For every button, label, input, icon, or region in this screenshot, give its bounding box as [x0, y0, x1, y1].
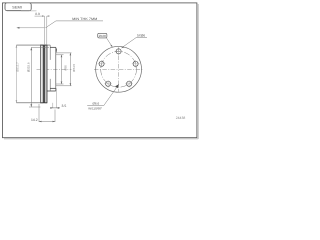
dimension A Ø212.7	[15, 45, 17, 103]
notch horizontal	[47, 90, 56, 92]
svg-text:Ø6.6: Ø6.6	[93, 102, 100, 106]
svg-text:Ø74.5: Ø74.5	[72, 63, 76, 71]
dimension line y27.8	[17, 27, 45, 29]
disc inboard plate outer face	[44, 45, 46, 103]
dimension B Ø232.6	[29, 47, 49, 107]
front view horizontal centerline	[94, 68, 144, 70]
dimension 14.2	[39, 104, 55, 122]
hat shoulder	[50, 46, 56, 48]
svg-text:5XØ6: 5XØ6	[137, 33, 145, 37]
border frame	[3, 3, 197, 138]
hat bottom wall	[50, 87, 56, 89]
MIN THK leader	[46, 21, 104, 28]
title box	[5, 3, 31, 11]
dimension 3.5	[51, 88, 61, 108]
svg-text:8.9: 8.9	[35, 12, 40, 16]
outer circle	[96, 46, 142, 92]
vertical centerline	[118, 47, 120, 92]
bolt hole upper-left	[98, 60, 106, 68]
section centerline	[37, 68, 72, 70]
disc outboard face	[40, 45, 42, 103]
svg-text:W/110/90°: W/110/90°	[88, 106, 103, 110]
dimension 8.9 thickness	[35, 16, 49, 45]
svg-text:24438: 24438	[176, 116, 186, 120]
step dim arrows at mounting face	[55, 48, 57, 53]
bolt circle	[101, 51, 137, 87]
border shadow	[4, 4, 198, 139]
5XØ6 label	[121, 33, 147, 48]
Ø6.6 label	[87, 84, 119, 110]
svg-text:SEMI: SEMI	[12, 6, 22, 10]
bolt hole lower-left	[104, 80, 112, 88]
PCD label box Ø100	[98, 33, 113, 47]
hat face lower	[49, 79, 51, 91]
bolt hole upper-right	[132, 60, 140, 68]
mounting face	[55, 47, 57, 91]
svg-text:Ø65: Ø65	[63, 65, 67, 71]
svg-text:Ø232.6: Ø232.6	[26, 62, 30, 72]
upper aux line y10.9	[21, 10, 37, 12]
hat face upper	[49, 45, 51, 60]
svg-text:3.5: 3.5	[62, 104, 67, 108]
svg-text:14.2: 14.2	[31, 118, 38, 122]
bolt hole top	[115, 48, 123, 56]
arrow at dim line A on y27.8	[17, 27, 20, 29]
disc top face	[16, 44, 50, 46]
disc outboard plate inner face	[42, 45, 44, 103]
disc band fill	[41, 45, 44, 103]
svg-text:Ø100: Ø100	[99, 34, 107, 38]
svg-text:Ø212.7: Ø212.7	[16, 62, 20, 72]
dimension Ø74.5	[56, 53, 72, 86]
bolt hole lower-right	[125, 80, 133, 88]
disc bottom face	[16, 102, 47, 104]
disc inboard face	[46, 45, 48, 103]
svg-text:MIN THK 7MM: MIN THK 7MM	[72, 17, 97, 21]
dimension Ø65	[56, 55, 64, 84]
